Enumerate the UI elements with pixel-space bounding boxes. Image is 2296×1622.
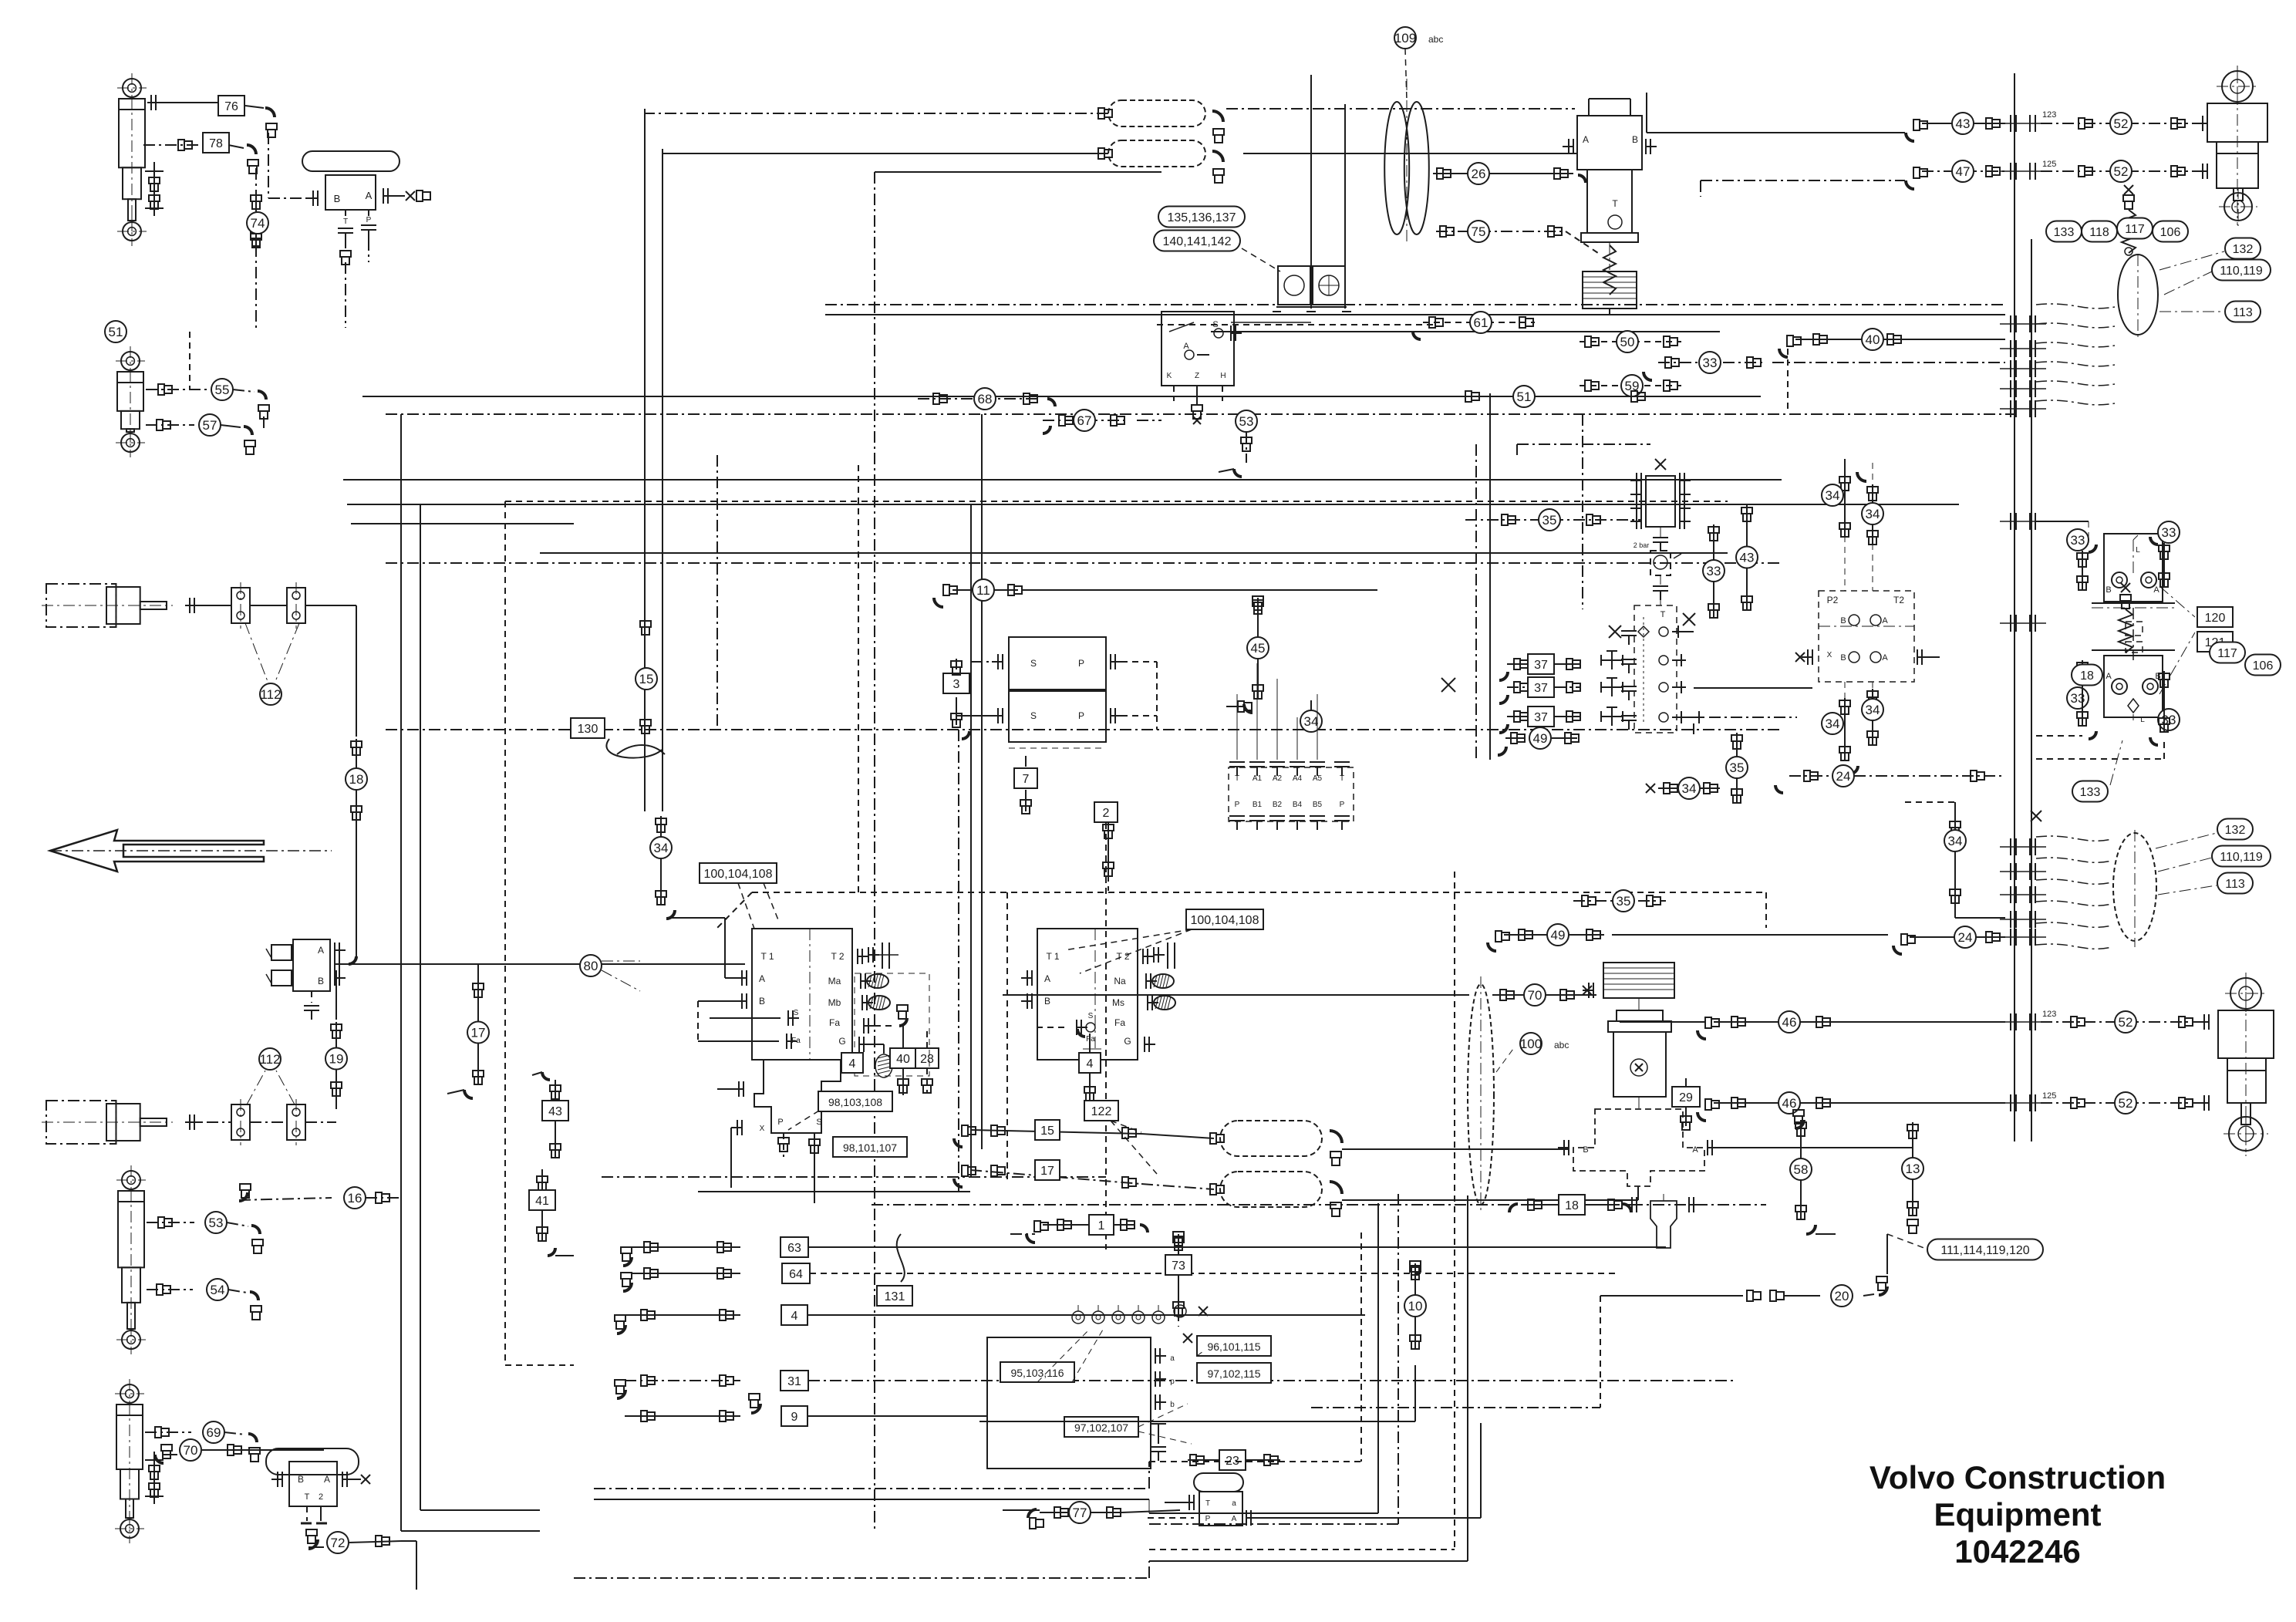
svg-text:45: 45 (1251, 641, 1266, 656)
cylinder right-top (2222, 71, 2253, 102)
bus tick r1 (2010, 115, 2011, 132)
svg-text:100: 100 (1520, 1037, 1542, 1051)
svg-text:P: P (1235, 801, 1240, 809)
svg-text:51: 51 (1517, 389, 1532, 404)
svg-text:68: 68 (978, 392, 993, 406)
pump1 T2 port (868, 947, 869, 963)
callout 133b (2072, 781, 2108, 802)
svg-text:76: 76 (224, 100, 238, 113)
Xmark g2 (2031, 811, 2041, 821)
svg-text:125: 125 (2042, 1091, 2056, 1101)
clamp block A (231, 588, 250, 623)
svg-text:Volvo Construction: Volvo Construction (1870, 1459, 2166, 1496)
wire bottom y2046 (574, 1577, 1149, 1579)
hose 47 (1906, 180, 1914, 189)
hose 20 (1731, 1295, 1743, 1297)
svg-text:133: 133 (2054, 226, 2075, 239)
svg-text:20: 20 (1835, 1289, 1849, 1303)
wire brake hose connect (2036, 521, 2089, 522)
svg-text:P: P (366, 216, 372, 224)
svg-text:Fa: Fa (829, 1017, 840, 1028)
hose 52 b (2041, 170, 2204, 172)
box 122 (1084, 1101, 1118, 1121)
svg-text:T2: T2 (1893, 595, 1904, 605)
wire bus y622 (343, 479, 1782, 481)
wire vert x1134 (874, 172, 875, 1529)
cylinder horizontal left-1 (46, 584, 116, 627)
svg-text:2: 2 (1103, 807, 1110, 820)
svg-text:A: A (324, 1474, 330, 1485)
svg-text:98,101,107: 98,101,107 (843, 1141, 897, 1154)
svg-text:98,103,108: 98,103,108 (828, 1096, 882, 1108)
accumulator B1 (1220, 1121, 1322, 1156)
boxed 37 hoses (1528, 654, 1554, 674)
box hose 43 left (542, 1101, 568, 1121)
bus tick r8 (2010, 513, 2011, 530)
svg-text:73: 73 (1172, 1259, 1185, 1273)
svg-text:34: 34 (1826, 717, 1840, 731)
hose 76 (147, 102, 217, 103)
cylinder horizontal left-2 (46, 1101, 116, 1144)
svg-text:80: 80 (584, 959, 598, 973)
svg-text:p: p (1170, 1378, 1175, 1386)
svg-text:11: 11 (976, 583, 990, 598)
svg-text:112: 112 (260, 687, 281, 702)
callout row 133-106 (2046, 221, 2082, 242)
svg-text:A: A (366, 190, 373, 201)
wire reduce stubs (1844, 536, 1846, 591)
wire accum to motor (1226, 108, 1575, 110)
hose 46 b (1698, 1112, 1706, 1121)
svg-text:112: 112 (259, 1052, 280, 1067)
svg-text:G: G (838, 1036, 845, 1047)
svg-text:43: 43 (548, 1105, 562, 1118)
svg-text:37: 37 (1534, 711, 1548, 724)
svg-text:122: 122 (1091, 1105, 1112, 1118)
wire 46 left (1620, 1021, 1706, 1023)
hose 33 ul (2067, 529, 2089, 551)
svg-text:Fa: Fa (791, 1037, 801, 1045)
svg-text:106: 106 (2253, 659, 2274, 673)
svg-text:S: S (1212, 320, 1218, 329)
hose 74 (255, 193, 257, 245)
svg-text:106: 106 (2160, 226, 2181, 239)
hose 35 d (1573, 900, 1666, 902)
wire vert x859 (662, 149, 663, 811)
wire y1562 long (872, 1204, 1512, 1206)
wire nest C (1397, 1194, 1399, 1524)
Xmark pair (1441, 678, 1455, 692)
wire bus y717 (540, 552, 1728, 554)
hose 73 (1173, 1232, 1184, 1238)
svg-text:L: L (2136, 546, 2140, 555)
hose 15 b (954, 1138, 963, 1147)
svg-text:125: 125 (2042, 160, 2056, 169)
balloon top (2118, 255, 2158, 335)
pump block 1 (752, 929, 852, 1060)
valve bank ports (1229, 767, 1354, 821)
manifold dashed box (1634, 605, 1677, 733)
svg-text:34: 34 (1866, 703, 1880, 717)
wire bus y679 (351, 523, 574, 524)
svg-text:26: 26 (1472, 167, 1486, 181)
svg-text:113: 113 (2233, 306, 2253, 319)
svg-text:35: 35 (1730, 760, 1745, 775)
manifold right ports (1155, 1348, 1156, 1364)
svg-text:T: T (1660, 610, 1666, 619)
check valve 2bar (1650, 551, 1671, 575)
hose 9 (625, 1415, 740, 1417)
svg-text:P: P (1078, 710, 1084, 721)
hose 52 c (2041, 1021, 2206, 1023)
wire cyl1 to valve (268, 133, 269, 198)
box 7 (1014, 768, 1037, 788)
filter block 1 (1278, 266, 1310, 305)
hose 77 (1003, 1509, 1040, 1511)
callout 113b (2217, 873, 2253, 894)
svg-text:Z: Z (1195, 372, 1199, 380)
svg-text:17: 17 (471, 1026, 486, 1040)
hose 43 top (1906, 133, 1914, 141)
label 97 102 115 (1197, 1363, 1271, 1383)
wire trunk corners left (401, 1530, 540, 1532)
svg-text:T 2: T 2 (1116, 951, 1129, 962)
svg-text:29: 29 (1679, 1091, 1693, 1104)
svg-text:A: A (759, 973, 765, 984)
box 4 p2 (1079, 1053, 1101, 1073)
valve block D (1194, 1473, 1243, 1492)
svg-text:G: G (1124, 1036, 1131, 1047)
svg-text:K: K (1167, 372, 1172, 380)
hose 33 midrow (1658, 362, 1766, 363)
svg-text:2 bar: 2 bar (1633, 541, 1650, 549)
valve manifold top (1161, 312, 1234, 386)
callout 112 lower (259, 1048, 281, 1070)
callout 132 (2225, 238, 2261, 259)
svg-text:T: T (1205, 1499, 1210, 1508)
svg-text:18: 18 (2080, 669, 2094, 683)
pump1 G fitting (870, 1044, 884, 1045)
svg-text:abc: abc (1428, 34, 1443, 45)
clamp block C (231, 1104, 250, 1140)
bus tick r12 (2010, 886, 2011, 903)
svg-text:69: 69 (207, 1425, 221, 1440)
svg-text:10: 10 (1408, 1299, 1423, 1313)
svg-text:1: 1 (1098, 1219, 1105, 1233)
svg-text:78: 78 (209, 137, 223, 150)
wire nest B (1377, 1203, 1379, 1513)
svg-text:A: A (2106, 672, 2112, 681)
hose 50 (1580, 341, 1681, 342)
svg-text:140,141,142: 140,141,142 (1163, 235, 1232, 248)
hose 54 (147, 1289, 193, 1290)
svg-text:B: B (298, 1474, 304, 1485)
wire to hose 18 (351, 605, 356, 606)
wire hose70 left (1003, 994, 1469, 996)
wire vert x1259 (970, 504, 972, 1177)
svg-text:52: 52 (2114, 116, 2129, 131)
svg-text:40: 40 (1866, 332, 1880, 347)
hose 40 (1779, 349, 1788, 357)
svg-text:70: 70 (184, 1443, 198, 1458)
svg-text:P: P (1078, 658, 1084, 669)
label 98 101 107 (833, 1137, 907, 1157)
callout 117b (2210, 642, 2245, 663)
label 140,141,142 (1154, 231, 1240, 251)
hose 17 b (954, 1179, 963, 1187)
svg-text:49: 49 (1533, 731, 1548, 746)
svg-text:33: 33 (2071, 533, 2085, 548)
hose 18 (356, 739, 357, 819)
hose 72 (308, 1539, 318, 1549)
box 3 (943, 673, 969, 693)
hose 46 a (1698, 1030, 1706, 1039)
svg-text:A: A (1882, 653, 1888, 663)
svg-text:B: B (1583, 1145, 1588, 1155)
spring assembly mid (2120, 595, 2131, 601)
wire nest A (1360, 1233, 1362, 1462)
svg-text:33: 33 (2162, 525, 2176, 540)
svg-text:34: 34 (1866, 507, 1880, 521)
svg-text:43: 43 (1740, 551, 1755, 565)
hose 43 col (1746, 505, 1748, 609)
svg-text:T 1: T 1 (1046, 951, 1059, 962)
bus tick r2 (2010, 163, 2011, 180)
hose 33 ll (2067, 687, 2089, 709)
callout 132b (2217, 819, 2253, 840)
port block SP1 (1009, 637, 1106, 690)
svg-text:Fa: Fa (1086, 1035, 1095, 1044)
svg-text:A: A (1882, 616, 1888, 626)
balloon mid (2113, 833, 2156, 941)
hose 34 tr (1872, 484, 1873, 544)
svg-text:35: 35 (1542, 513, 1557, 528)
callout 80 (580, 955, 602, 976)
svg-text:T: T (305, 1492, 310, 1502)
svg-text:109: 109 (1394, 31, 1416, 46)
wire bus y946 (386, 729, 1782, 730)
motor unit mid (1603, 963, 1674, 998)
svg-text:4: 4 (849, 1057, 856, 1071)
hose 33 ur (2158, 521, 2180, 543)
svg-text:117: 117 (2217, 647, 2237, 660)
svg-text:7: 7 (1023, 773, 1030, 786)
wire trunk x545 (420, 504, 421, 1510)
pump1 Fa fitting (863, 1018, 865, 1034)
bus tick r16 (2010, 1094, 2011, 1111)
svg-text:67: 67 (1077, 413, 1092, 428)
hose 24 a (1789, 775, 2005, 777)
hose 49 small (1498, 747, 1506, 755)
wire pump1 dashed box (855, 973, 929, 1076)
pulley lens pair (1384, 102, 1409, 234)
svg-text:123: 123 (2042, 1010, 2056, 1019)
svg-text:55: 55 (215, 383, 230, 397)
bus tick r13 (2010, 911, 2011, 928)
svg-text:A: A (1183, 342, 1189, 351)
wire vert x1306 (1006, 892, 1008, 1180)
label 100 104 108 a (700, 863, 777, 883)
direction arrow (50, 830, 264, 872)
svg-text:113: 113 (2225, 878, 2245, 891)
wire SP wires (971, 661, 1003, 663)
solenoid valve left (293, 939, 330, 991)
pump block 2 (1037, 929, 1138, 1060)
svg-text:19: 19 (329, 1052, 344, 1067)
svg-text:54: 54 (211, 1283, 225, 1297)
svg-text:a: a (1232, 1499, 1236, 1508)
svg-text:L: L (2140, 716, 2145, 724)
svg-text:61: 61 (1474, 315, 1489, 330)
svg-text:B: B (1840, 616, 1846, 626)
hydraulic cylinder left-3 (122, 1171, 140, 1189)
hose 51 mid (1458, 396, 1650, 397)
svg-text:B: B (318, 976, 324, 986)
svg-text:111,114,119,120: 111,114,119,120 (1940, 1244, 2029, 1257)
hose 68 (918, 398, 1041, 400)
wire 34 rm top (1954, 802, 1956, 819)
svg-text:53: 53 (1239, 414, 1254, 429)
wire vert x930 (716, 455, 718, 730)
manifold top fittings (1072, 1311, 1084, 1324)
hose 52 a (2041, 123, 2204, 124)
clamp block B (287, 588, 305, 623)
hose 34 br (1872, 689, 1873, 744)
svg-text:70: 70 (1528, 988, 1542, 1003)
hose 33 col (1713, 524, 1714, 617)
wire vert x836 (644, 109, 646, 617)
wire bus y654 (347, 504, 1959, 505)
svg-text:P: P (1205, 1515, 1211, 1523)
svg-text:T 2: T 2 (831, 951, 844, 962)
hydraulic cylinder left-2 (121, 352, 140, 370)
label 111 114 119 120 (1927, 1239, 2043, 1260)
hose 16 (239, 1192, 248, 1201)
hose 4 ladder (617, 1325, 625, 1334)
svg-text:95,103,116: 95,103,116 (1010, 1367, 1064, 1379)
svg-text:33: 33 (1707, 564, 1721, 578)
svg-text:H: H (1220, 372, 1226, 380)
bus tick r5 (2010, 360, 2011, 377)
label 130 (571, 718, 605, 738)
wire hose34 connect (724, 918, 726, 978)
hose 52 d (2041, 1102, 2206, 1104)
wire bus y730 (386, 562, 1782, 564)
svg-text:18: 18 (1565, 1199, 1579, 1212)
svg-text:17: 17 (1040, 1165, 1054, 1178)
filter block 2 (1313, 266, 1345, 305)
wire trunk y408 (825, 314, 2005, 315)
brake block upper (2104, 534, 2163, 602)
callout 113 (2225, 302, 2261, 322)
svg-text:B1: B1 (1253, 801, 1263, 809)
svg-text:130: 130 (578, 723, 598, 736)
hose 31 ladder (617, 1390, 625, 1398)
wire 40 left (1787, 349, 1789, 409)
label 135,136,137 (1158, 207, 1245, 228)
svg-text:97,102,107: 97,102,107 (1074, 1421, 1128, 1434)
svg-text:B5: B5 (1313, 801, 1323, 809)
svg-text:S: S (1088, 1012, 1094, 1020)
hose 24 b (1893, 946, 1902, 954)
fan curves right top (2036, 304, 2115, 309)
funnel component (1650, 1201, 1677, 1248)
label 98 103 108 (818, 1091, 892, 1111)
svg-text:52: 52 (2119, 1096, 2133, 1111)
svg-text:135,136,137: 135,136,137 (1168, 211, 1236, 224)
brake block lower (2104, 656, 2163, 717)
hose 55 (146, 389, 207, 390)
clamp block D (287, 1104, 305, 1140)
svg-text:T: T (343, 218, 348, 226)
svg-text:T: T (1612, 198, 1618, 209)
wire bottom y1944 (594, 1499, 1149, 1500)
svg-text:37: 37 (1534, 659, 1548, 672)
wire vert x1243 (958, 730, 959, 1192)
hose 78 (165, 144, 202, 146)
valve block top-left (325, 175, 376, 210)
svg-text:110,119: 110,119 (2220, 265, 2263, 278)
hose 67 (1043, 426, 1050, 433)
svg-text:Fa: Fa (1114, 1017, 1125, 1028)
svg-text:132: 132 (2233, 243, 2254, 256)
svg-text:52: 52 (2119, 1015, 2133, 1030)
wire bottom left jog (1148, 1462, 1150, 1489)
svg-text:9: 9 (791, 1411, 798, 1424)
svg-text:B: B (334, 193, 341, 204)
label 100 104 108 b (1186, 909, 1263, 929)
svg-text:A: A (318, 945, 324, 956)
wire cluster verticals (1475, 444, 1477, 760)
svg-text:X: X (1827, 651, 1832, 659)
svg-text:15: 15 (1040, 1125, 1054, 1138)
svg-text:a: a (1170, 1354, 1175, 1363)
hose 1 (1027, 1234, 1035, 1243)
motor unit top-right (1577, 116, 1642, 170)
bus tick r4 (2010, 340, 2011, 357)
wire 47 left (1701, 180, 1905, 181)
svg-text:1042246: 1042246 (1954, 1533, 2081, 1570)
box 2 (1094, 802, 1118, 822)
svg-text:X: X (760, 1125, 765, 1133)
hose 45 (1253, 596, 1263, 602)
wire bus y537 (386, 413, 2014, 415)
hose 58 (1795, 1120, 1804, 1128)
bus tick r6 (2010, 380, 2011, 397)
bus tick r9 (2010, 615, 2011, 632)
label 97 102 107 b (1064, 1417, 1138, 1437)
hose 19 (335, 970, 337, 1020)
svg-text:34: 34 (654, 841, 669, 855)
hose 53 vert (1236, 410, 1257, 432)
svg-text:96,101,115: 96,101,115 (1207, 1340, 1260, 1353)
svg-text:S: S (794, 1009, 799, 1017)
svg-text:34: 34 (1948, 834, 1963, 848)
hose 59 (1580, 385, 1681, 386)
box 29 (1672, 1087, 1700, 1107)
svg-text:43: 43 (1956, 116, 1971, 131)
wire nest G (1600, 1296, 1601, 1408)
svg-text:31: 31 (787, 1375, 801, 1388)
svg-text:A: A (1583, 134, 1589, 145)
hose 33 lr (2158, 709, 2180, 730)
svg-text:S: S (816, 1118, 821, 1127)
pump1 Ma Mb plugs (867, 974, 888, 988)
svg-text:58: 58 (1794, 1162, 1809, 1177)
bus tick r15 (2010, 1013, 2011, 1030)
svg-text:46: 46 (1782, 1096, 1797, 1111)
wire dashed vert x655 (504, 501, 506, 1365)
